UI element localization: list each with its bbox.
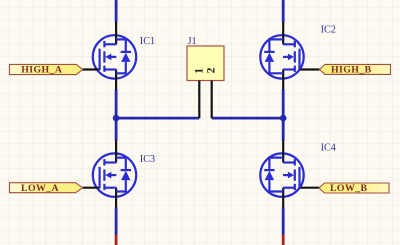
wire left vertical middle (115, 89, 118, 140)
svg-text:2: 2 (206, 67, 218, 73)
port HIGH_B (319, 64, 390, 74)
port HIGH_A (10, 64, 83, 74)
wire horizontal J1 pin 2 to right (212, 117, 284, 120)
junction node right (280, 115, 287, 122)
svg-text:IC2: IC2 (321, 24, 336, 35)
wire red stub right (282, 235, 285, 245)
wire right vertical bottom (282, 208, 285, 236)
svg-text:HIGH_B: HIGH_B (331, 65, 372, 76)
svg-text:LOW_B: LOW_B (330, 183, 367, 194)
svg-text:J1: J1 (188, 36, 197, 47)
port LOW_B (319, 183, 389, 193)
transistor IC4 (260, 140, 319, 208)
transistor IC2 (260, 22, 319, 90)
wire horizontal left to J1 pin 1 (116, 117, 199, 120)
wire left vertical bottom (115, 208, 118, 236)
transistor IC3 (83, 140, 137, 208)
transistor IC1 (83, 22, 137, 90)
wire right vertical top (282, 0, 285, 23)
svg-text:IC3: IC3 (140, 154, 155, 165)
svg-text:IC4: IC4 (321, 143, 336, 154)
svg-text:IC1: IC1 (140, 36, 155, 47)
svg-text:LOW_A: LOW_A (21, 183, 59, 194)
wire red stub left (115, 235, 118, 245)
wire left vertical top (115, 0, 118, 23)
port LOW_A (10, 183, 83, 193)
svg-text:1: 1 (194, 68, 206, 74)
svg-text:HIGH_A: HIGH_A (21, 65, 62, 76)
junction node left (113, 115, 120, 122)
connector J1 pin 2 (211, 81, 213, 119)
wire right vertical middle (282, 89, 285, 140)
connector J1 body (187, 46, 224, 81)
connector J1 pin 1 (198, 81, 200, 119)
